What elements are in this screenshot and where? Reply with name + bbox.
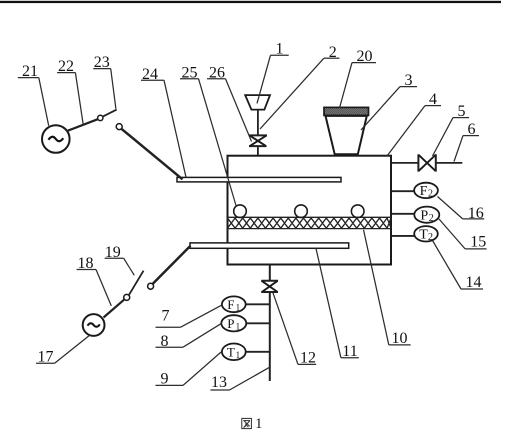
svg-text:1: 1	[236, 303, 241, 313]
svg-text:1: 1	[236, 350, 241, 360]
svg-text:18: 18	[78, 255, 94, 272]
svg-text:4: 4	[429, 91, 437, 108]
svg-text:19: 19	[105, 244, 121, 261]
svg-text:F: F	[420, 184, 428, 199]
svg-text:8: 8	[161, 333, 169, 350]
svg-text:1: 1	[255, 416, 262, 432]
svg-text:15: 15	[470, 234, 486, 251]
svg-text:17: 17	[38, 348, 54, 365]
svg-text:2: 2	[329, 44, 337, 61]
svg-text:6: 6	[468, 121, 476, 138]
svg-text:T: T	[419, 227, 428, 242]
svg-text:12: 12	[300, 350, 316, 367]
svg-text:10: 10	[392, 330, 408, 347]
svg-text:2: 2	[428, 189, 433, 200]
svg-text:2: 2	[428, 232, 433, 243]
svg-text:9: 9	[161, 371, 169, 388]
svg-text:26: 26	[209, 64, 225, 81]
svg-text:1: 1	[236, 322, 241, 332]
svg-text:21: 21	[22, 63, 38, 80]
svg-text:23: 23	[94, 54, 110, 71]
svg-text:P: P	[227, 316, 234, 331]
svg-text:16: 16	[468, 205, 484, 222]
svg-text:P: P	[420, 208, 428, 223]
svg-text:7: 7	[162, 308, 170, 325]
svg-text:F: F	[227, 297, 234, 312]
svg-text:1: 1	[276, 41, 284, 58]
svg-text:5: 5	[458, 103, 466, 120]
svg-text:24: 24	[142, 66, 158, 83]
svg-text:13: 13	[211, 374, 227, 391]
svg-text:T: T	[227, 344, 235, 359]
svg-text:3: 3	[405, 72, 413, 89]
svg-text:25: 25	[182, 64, 198, 81]
svg-text:2: 2	[429, 213, 434, 224]
svg-text:11: 11	[342, 343, 357, 360]
svg-text:20: 20	[357, 48, 373, 65]
svg-text:22: 22	[58, 58, 74, 75]
svg-text:14: 14	[466, 274, 482, 291]
